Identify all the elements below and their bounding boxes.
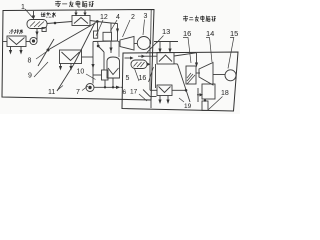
generator G2 <box>225 70 236 81</box>
title loop1 <box>55 1 94 7</box>
svg-text:8: 8 <box>28 58 32 65</box>
turbine T2 <box>199 63 213 86</box>
pill outlet arrow <box>147 63 151 66</box>
svg-text:15: 15 <box>230 29 238 38</box>
pump SR2 <box>202 101 208 111</box>
inlet arrow box2 top-left <box>125 57 131 59</box>
drum drain downpipe <box>36 29 38 40</box>
svg-text:3: 3 <box>144 13 148 20</box>
shaft T1-G1 <box>134 43 138 45</box>
steam pipe drum to HX2 <box>47 22 72 24</box>
turbine trapezoid T1b <box>120 37 134 51</box>
riser pipe with up arrow <box>92 42 94 84</box>
title loop2 <box>183 16 216 22</box>
svg-text:5: 5 <box>126 75 130 82</box>
steam line to right <box>174 53 196 56</box>
svg-text:11: 11 <box>48 89 55 96</box>
svg-text:18: 18 <box>221 90 229 97</box>
header line <box>93 40 118 43</box>
box2 loop-2 boundary <box>122 52 238 111</box>
svg-text:16: 16 <box>183 29 191 38</box>
svg-text:19: 19 <box>184 103 192 110</box>
condenser M3 <box>157 85 172 96</box>
drain diagonal L5 <box>57 64 74 91</box>
drain diagonal L4 <box>74 23 95 65</box>
svg-text:4: 4 <box>116 14 120 21</box>
drain diagonal L1 <box>48 23 96 51</box>
evap feed arrow b <box>169 42 171 53</box>
C2 to pump stub <box>204 99 206 101</box>
condensate feed pipe <box>197 88 199 102</box>
downcomer in box2 <box>149 42 151 91</box>
pump discharge pipe <box>94 86 116 88</box>
generator G1 <box>137 37 150 50</box>
valve under drum <box>42 28 46 32</box>
geothermal water inlet arrow <box>33 11 35 18</box>
M3 cooling arrow a <box>159 96 161 103</box>
svg-text:7: 7 <box>76 89 80 96</box>
flash drum 1 <box>27 20 47 29</box>
connector box1-box2 <box>150 100 152 108</box>
evaporator E2 <box>157 53 174 65</box>
svg-text:9: 9 <box>28 73 32 80</box>
vessel funnel V2 <box>155 64 157 88</box>
drop to condenser <box>110 41 112 53</box>
condenser drain diagonal <box>174 63 178 65</box>
steam pipe to valve rack <box>90 21 97 22</box>
M3 outlet <box>172 89 186 91</box>
M1 inlet from border <box>3 41 7 43</box>
M3 cooling arrow b <box>167 96 169 103</box>
heat exchanger M2 mid <box>60 50 82 64</box>
T1 exhaust stub <box>111 22 118 25</box>
valve downpipe a <box>97 22 99 32</box>
heat exchanger HX2 <box>72 16 90 26</box>
condenser C2 <box>202 84 215 99</box>
steam feed arrow into T2 <box>196 53 198 67</box>
svg-text:1: 1 <box>21 4 25 11</box>
evap feed arrow a <box>159 42 161 53</box>
shaft link to turbine trap <box>118 41 121 42</box>
HX2 feed arrow b <box>84 10 86 16</box>
pump P2 <box>26 41 30 43</box>
svg-text:17: 17 <box>130 89 138 96</box>
svg-text:6: 6 <box>123 89 127 96</box>
box1 loop-1 boundary <box>2 10 154 101</box>
svg-text:16: 16 <box>139 75 147 82</box>
junction to small tank <box>97 42 100 47</box>
svg-text:14: 14 <box>206 29 214 38</box>
M2 outlet <box>82 56 94 58</box>
V1 bottom stub <box>112 78 114 87</box>
exhaust line to evaporator <box>146 42 157 54</box>
shaft T2-G2 <box>213 74 225 76</box>
pump P1 <box>86 84 94 92</box>
svg-text:2: 2 <box>131 14 135 21</box>
svg-text:12: 12 <box>100 14 108 21</box>
svg-text:10: 10 <box>77 69 85 76</box>
condenser vessel V1 <box>107 57 120 78</box>
small tank SR1 <box>102 70 109 80</box>
M1 drain arrow b <box>20 47 22 54</box>
M2 drain arrow a <box>60 64 62 69</box>
regenerator B3 <box>186 66 196 84</box>
M1 drain arrow a <box>10 47 12 54</box>
pill drum PD2 <box>131 60 147 69</box>
valve downpipe b <box>110 23 112 32</box>
label hot water <box>41 12 56 17</box>
HX2 feed arrow a <box>75 10 77 16</box>
heat exchanger M1 <box>7 36 26 47</box>
condensate text <box>10 29 23 34</box>
valve box A <box>94 31 98 38</box>
drain diagonal L3 <box>38 39 54 66</box>
E2 liquid return line <box>138 55 157 57</box>
valve box B <box>103 32 112 41</box>
M2 drain arrow b <box>70 64 72 69</box>
inner pipe along box1 right edge <box>150 10 153 44</box>
svg-text:13: 13 <box>162 27 170 36</box>
